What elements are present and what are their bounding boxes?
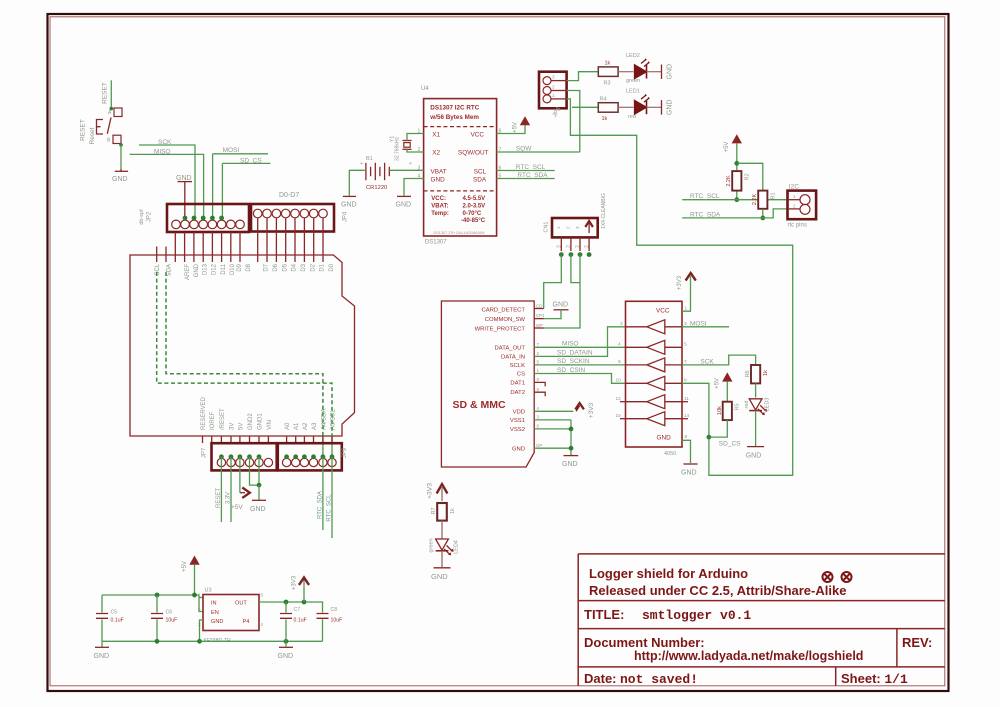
svg-text:GP: GP [536,443,543,448]
svg-text:9: 9 [684,378,687,384]
svg-text:VSS1: VSS1 [510,418,525,424]
svg-text:JP2: JP2 [147,211,153,222]
svg-text:D3: D3 [301,263,307,271]
wire 5V below JP7 [239,457,241,493]
buffer gate 1 [626,320,683,334]
svg-text:B1: B1 [366,156,373,162]
svg-text:smtlogger v0.1: smtlogger v0.1 [642,608,751,623]
LED2 (green) [635,58,651,78]
svg-text:WRITE_PROTECT: WRITE_PROTECT [475,327,526,333]
svg-text:DAT1: DAT1 [510,380,525,386]
dashed net SCL inside shield [157,272,332,436]
wire RTC_SDA to I2C pins [682,209,787,218]
svg-text:1: 1 [552,93,555,98]
svg-text:1k: 1k [450,508,456,514]
wire SCK out [682,355,756,365]
supply +3V3 arrow (U1) [686,273,696,281]
svg-text:IN: IN [211,601,217,607]
svg-text:RTC_SCL: RTC_SCL [516,164,546,171]
svg-text:A3: A3 [312,422,318,430]
copyright symbol 1 [823,572,833,582]
ground GND (C5) [101,641,103,646]
resistor R7 [437,503,447,521]
svg-text:11: 11 [684,396,689,402]
crystal Y1 [403,141,412,150]
svg-text:MISO: MISO [154,148,171,155]
svg-text:R7: R7 [431,507,437,514]
svg-text:SQW: SQW [516,145,532,152]
svg-text:GND: GND [396,202,412,209]
svg-text:Released under CC 2.5, Attrib/: Released under CC 2.5, Attrib/Share-Alik… [589,583,846,598]
svg-text:P2: P2 [566,245,571,249]
supply +3V3 arrow (regulator) [303,580,305,603]
SD stub WP [534,327,544,329]
supply +5V arrow (sideways) [242,488,250,498]
svg-text:RESET: RESET [102,82,109,104]
svg-text:GND: GND [681,470,697,477]
svg-text:32.768kHz: 32.768kHz [395,137,401,161]
svg-text:P4: P4 [243,619,250,625]
wire R6 to LED3 [755,383,757,397]
svg-text:WP: WP [536,323,543,328]
svg-text:OUT: OUT [235,601,247,607]
svg-text:AREF: AREF [185,264,191,280]
svg-text:GND: GND [562,461,578,468]
title block [578,554,945,687]
supply +3V3 arrow (CN1 pin4) [585,221,593,227]
svg-text:EN: EN [211,610,219,616]
svg-text:CR1220: CR1220 [366,185,387,191]
svg-text:GND: GND [666,100,673,116]
svg-text:SCL: SCL [474,168,487,175]
svg-text:2: 2 [537,351,540,356]
ground GND (U4) [397,195,411,197]
buffer gate 3 [626,358,683,372]
resistor R1 (SDA pullup) [758,191,767,209]
svg-text:DS1307: DS1307 [425,239,447,245]
wire U4 GND pin to ground [404,179,424,196]
svg-text:10k: 10k [717,406,723,415]
svg-text:I2C: I2C [789,184,799,191]
wire GND2 below JP7 [250,457,260,485]
wire R3 to LED2 [618,71,633,73]
svg-text:10uF: 10uF [331,618,343,624]
svg-text:GND: GND [176,175,192,182]
svg-text:+: + [360,161,363,167]
U4 inner dashed separator top [424,126,497,128]
svg-text:0.1uF: 0.1uF [294,618,307,624]
svg-text:12: 12 [616,396,622,402]
wire X2 to crystal [407,149,424,152]
svg-text:LED4: LED4 [454,540,460,554]
svg-text:R3: R3 [604,81,611,87]
svg-text:JP9: JP9 [342,447,348,458]
wire R4 to LED1 [618,106,633,108]
svg-text:CARD_DETECT: CARD_DETECT [481,307,525,313]
svg-text:D5: D5 [282,263,288,271]
wire LED1 to ground [647,106,662,108]
supply +5V arrow (R5) [722,372,732,381]
svg-text:rtc pins: rtc pins [788,223,807,229]
svg-text:0.1uF: 0.1uF [111,618,124,624]
junction +5V branch [734,161,739,166]
wire GND to pin [184,182,186,218]
ground GND (LED4) [434,567,451,569]
shield top pin stubs [157,218,323,262]
svg-text:5V: 5V [238,423,244,430]
wire switch to ground [120,145,122,169]
svg-text:MOSI: MOSI [223,147,240,154]
SD stub CP1 [534,318,544,320]
svg-text:not saved!: not saved! [620,672,698,687]
svg-text:COMMON_SW: COMMON_SW [485,317,526,323]
svg-text:MOSI: MOSI [690,320,707,327]
svg-text:SD_CSIN: SD_CSIN [557,367,585,374]
svg-text:D0: D0 [329,263,335,271]
CN1 pin stubs [561,237,589,251]
CN1 inner pin numbers [556,226,580,229]
wire VCC to +5V [497,125,525,134]
svg-text:RESERVED: RESERVED [201,396,207,430]
svg-text:2: 2 [566,226,571,229]
svg-text:GND: GND [553,302,569,309]
svg-text:X2: X2 [432,150,440,157]
svg-text:+5V: +5V [724,142,730,153]
svg-text:8: 8 [537,377,540,382]
wire input bus [102,595,203,612]
ground GND (switch) [115,170,128,172]
ground GND (U1) [683,463,697,465]
wire VDD to +3V3 [534,410,573,412]
capacitor C6 [156,595,158,613]
wire GND pin [534,447,571,449]
copyright symbol 2 [842,572,852,582]
svg-text:C6: C6 [166,610,173,616]
junction +3V3 stem [302,600,307,605]
JP3 pin circles [543,77,551,103]
wire MOSI [213,153,268,155]
svg-text:1: 1 [198,593,201,598]
svg-text:1X4-CLEANBIG: 1X4-CLEANBIG [601,193,607,229]
svg-text:RTC_SCL: RTC_SCL [327,494,333,522]
svg-text:6: 6 [537,423,540,428]
SD stub CD [534,308,544,310]
junction SD_CS [707,435,712,440]
svg-text:4: 4 [618,342,621,348]
wire battery to VBAT [389,169,423,171]
svg-text:Sheet: 1/1: Sheet: 1/1 [841,671,908,687]
svg-text:2.2K: 2.2K [752,194,758,206]
JP9 pin circles [282,458,336,466]
svg-text:A2: A2 [303,422,309,430]
wire MOSI out [682,326,729,328]
svg-text:VBAT: VBAT [431,168,447,175]
JP4 pin circles [253,209,327,218]
junction C7 top [284,600,289,605]
svg-text:+3V3: +3V3 [292,575,298,590]
svg-text:1: 1 [556,226,561,229]
svg-text:1: 1 [537,368,540,373]
wire SDA pullup down [762,209,764,218]
wire RTC_SCL to I2C pins [682,199,787,201]
wire SCK [139,145,195,218]
svg-text:R5: R5 [735,403,741,410]
connector I2C (rtc pins) [788,191,817,220]
svg-text:+5V: +5V [231,504,243,511]
svg-text:Date:: Date: [584,671,617,686]
SD pin designators [536,304,545,448]
svg-text:7: 7 [684,359,687,365]
wire RTC_SCL net (U4) [497,170,555,172]
svg-text:GND: GND [250,506,266,513]
shield bottom pin labels [201,396,337,430]
U4 pin name texts [431,131,489,183]
wire RTC_SCL below JP9 [331,457,333,538]
svg-text:R6: R6 [745,370,751,377]
wire MISO (DATA_OUT to buffer) [534,346,625,348]
svg-text:GND: GND [278,653,294,660]
svg-text:GND1: GND1 [257,413,263,430]
svg-text:CS: CS [517,372,525,378]
wire JP3 pin1 to SD_CS loop [567,99,793,475]
svg-text:SD_SCKIN: SD_SCKIN [557,358,590,365]
svg-text:red: red [744,401,750,409]
connector JP9 (analog row) [278,443,342,470]
junction C6 top [155,593,160,598]
svg-text:+5V: +5V [513,122,519,133]
junction +5V stem [192,593,197,598]
SD stub DAT2 [534,392,545,396]
svg-text:15: 15 [616,413,622,419]
wire LED2 to ground [647,71,662,73]
svg-text:SD_CS: SD_CS [719,441,741,448]
ground GND (LED2, rotated) [661,65,663,80]
svg-text:R1: R1 [771,192,777,199]
svg-text:3.3V: 3.3V [226,492,232,504]
svg-text:VSS2: VSS2 [510,427,525,433]
svg-text:4050: 4050 [664,451,676,457]
svg-text:RTC_SDA: RTC_SDA [317,491,323,519]
svg-text:GND: GND [194,263,200,277]
LED4 [436,539,454,555]
svg-text:2: 2 [620,321,623,327]
svg-text:SDA: SDA [473,177,487,184]
wire CN1 pin2/3 to WP [571,255,580,283]
wire ground bus [102,640,323,642]
JP1 pin circles [172,220,245,229]
junction GND net [257,483,262,488]
svg-text:2.2K: 2.2K [726,175,732,187]
shield bottom pin stubs [203,436,333,443]
svg-text:5: 5 [537,359,540,364]
junction SCL [734,197,739,202]
svg-text:CD: CD [536,304,543,309]
svg-text:DATA_IN: DATA_IN [501,354,525,360]
svg-text:+5V: +5V [715,378,721,389]
wire SD_DATAIN [534,327,625,357]
capacitor C7 [285,602,287,613]
svg-text:P4: P4 [584,245,589,249]
svg-text:SCLK: SCLK [510,363,525,369]
svg-text:GND: GND [657,435,672,442]
wire LED4 to ground [441,551,443,567]
svg-text:SD_CS: SD_CS [240,157,262,164]
svg-text:RESET: RESET [80,119,87,141]
wire VSS1 [534,419,571,421]
svg-text:+3V3: +3V3 [427,483,434,499]
wire to R4 [572,106,598,108]
wire VCC to +3V3 [682,276,691,311]
svg-text:LED1: LED1 [626,89,640,95]
svg-text:X1: X1 [432,131,440,138]
svg-text:4: 4 [537,406,540,411]
svg-text:LED3: LED3 [765,398,771,412]
svg-text:SCK: SCK [158,139,172,146]
wire GND1 below JP7 [258,457,260,485]
svg-text:SD & MMC: SD & MMC [453,399,506,411]
LED1 (red) [635,94,651,114]
svg-text:2: 2 [793,204,796,209]
svg-text:GND: GND [341,202,357,209]
svg-text:D9: D9 [237,263,243,271]
svg-text:1k: 1k [602,116,608,122]
svg-text:B: B [107,138,111,144]
ground GND (C7) [285,641,287,646]
vertical VSS/GND bus [570,420,572,455]
wire JP3 pin2 to SQW [567,91,580,153]
I2C pin circles [800,195,810,215]
wire SQW net [497,151,580,153]
resistor R4 [598,103,618,113]
svg-text:5: 5 [261,593,264,598]
wire SD_SCKIN [534,364,625,366]
wire R5 to SD_CS junction [709,420,727,437]
wire RTC_SDA below JP9 [322,457,324,530]
node B junction [119,143,123,147]
switch S1 actuator bracket [97,120,104,135]
svg-text:+5V: +5V [182,561,188,572]
connector JP4 (D0-D7 row) [251,204,334,232]
wire RESET below JP7 [220,457,222,522]
U4 pin numbers [418,129,502,180]
wire CN1 pin1 to CD [544,255,562,309]
gate 5/6 outer stubs [620,402,688,419]
resistor R2 (SCL pullup) [732,171,741,191]
svg-text:8: 8 [685,434,688,440]
regulator IC1 box [203,595,259,631]
U4 spec table [431,196,485,224]
svg-text:Temp:: Temp: [431,211,449,217]
svg-text:MISO: MISO [562,341,579,348]
svg-text:/RESET: /RESET [220,408,226,430]
svg-text:VIN: VIN [267,420,273,430]
svg-text:A5/SCL: A5/SCL [330,409,336,430]
svg-text:R2: R2 [745,173,751,180]
JP9 connected pin dots [284,454,334,459]
switch S1 contact A [114,108,122,117]
svg-text:2: 2 [552,85,555,90]
svg-text:GND: GND [666,64,673,80]
resistor R5 [723,402,732,420]
ground GND (LED3) [747,446,764,448]
svg-text:SDA: SDA [167,264,173,276]
supply +5V arrow (regulator) [189,556,199,565]
svg-text:D4: D4 [292,263,298,271]
svg-text:JP4: JP4 [343,211,349,222]
svg-text:GND: GND [431,177,446,184]
wire regulator GND to bus [200,620,204,641]
wire R7 to LED4 [441,521,443,539]
buffer gate 2 [626,340,683,354]
svg-text:D0-D7: D0-D7 [279,192,299,199]
svg-text:10uF: 10uF [166,618,178,624]
wire MISO [130,154,204,218]
JP7 pin circles [217,458,272,466]
svg-text:GND: GND [211,619,223,625]
svg-text:db-spf: db-spf [139,209,145,225]
svg-text:-40-85°C: -40-85°C [461,218,486,224]
svg-text:0-70°C: 0-70°C [463,211,482,217]
shield top pin labels [155,263,335,280]
svg-text:C8: C8 [331,607,338,613]
ground GND (battery) [343,195,356,197]
wire LED3 to ground [755,411,757,447]
svg-text:D7: D7 [264,263,270,271]
svg-text:+3V3: +3V3 [588,402,595,418]
svg-text:GND: GND [431,572,448,581]
dashed net SDA inside shield [166,272,323,436]
svg-text:RESET: RESET [216,488,222,508]
svg-text:D12: D12 [212,263,218,275]
supply +5V arrow (U4) [520,116,530,125]
svg-text:red: red [628,114,636,120]
wire VSS2 [534,428,571,430]
svg-text:CP1: CP1 [536,313,545,318]
supply +5V arrow (pullups) [732,134,742,143]
svg-text:w/56 Bytes Mem: w/56 Bytes Mem [429,114,479,121]
svg-text:A1: A1 [294,422,300,430]
svg-text:P1: P1 [557,245,562,249]
svg-text:14: 14 [684,413,690,419]
svg-text:CN1: CN1 [544,221,550,232]
svg-text:DS1307 ZS+ DALLAS/MAXIM: DS1307 ZS+ DALLAS/MAXIM [434,231,485,235]
wire SD_CS [222,162,270,164]
svg-text:D8: D8 [246,263,252,271]
ground GND (SD) [564,455,579,457]
resistor R3 [598,67,618,77]
svg-text:3: 3 [684,321,687,327]
supply +3V3 arrow (VDD) [575,403,584,409]
buffer gate 5 [626,395,683,409]
svg-text:A4/SDA: A4/SDA [321,409,327,430]
svg-text:GND: GND [112,176,128,183]
svg-text:U4: U4 [421,86,429,92]
svg-text:VCC:: VCC: [431,196,446,202]
wire U1 GND pin to ground [682,440,691,463]
svg-text:D10: D10 [230,263,236,275]
SD pin name texts [475,307,526,452]
JP7 connected pin dots [219,454,261,459]
capacitor C5 [101,595,103,613]
svg-text:VCC: VCC [656,308,670,315]
SD stub DAT1 [534,382,545,386]
wire JP3 pin3 to R3 [567,72,599,81]
node A junction [110,107,114,111]
svg-text:SD_DATAIN: SD_DATAIN [557,350,593,357]
svg-text:DAT2: DAT2 [510,390,525,396]
svg-text:A: A [108,110,112,116]
svg-text:http://www.ladyada.net/make/lo: http://www.ladyada.net/make/logshield [634,649,863,663]
